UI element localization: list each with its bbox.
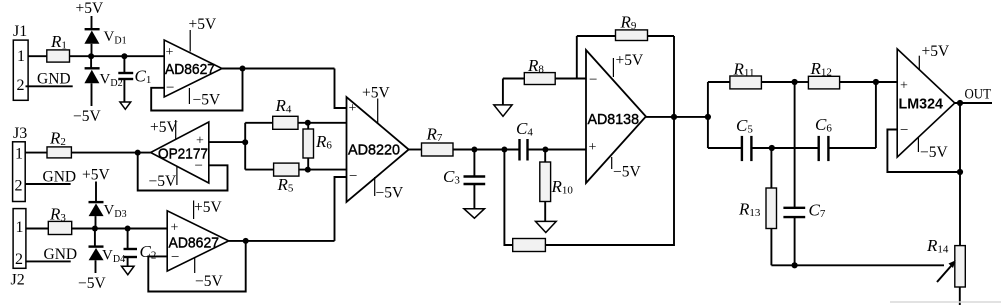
svg-text:−5V: −5V <box>920 144 948 161</box>
svg-text:C7: C7 <box>809 201 826 221</box>
svg-text:−: − <box>349 169 357 185</box>
wire U6 feedback loop <box>887 130 960 173</box>
node C3 junction <box>471 147 477 153</box>
resistor R3 <box>48 205 71 235</box>
svg-text:−5V: −5V <box>78 275 106 292</box>
in-amp U4 AD8220 <box>347 97 409 202</box>
op-amp U6 LM324 <box>897 49 955 157</box>
wire R3 to AD8627 bottom +in <box>72 228 168 230</box>
+5V supply VD3 <box>82 167 110 203</box>
svg-text:C1: C1 <box>135 67 152 87</box>
svg-text:+5V: +5V <box>82 167 110 184</box>
svg-text:AD8220: AD8220 <box>348 142 400 159</box>
svg-text:−5V: −5V <box>376 185 404 202</box>
wire MFB bottom loop <box>504 150 512 246</box>
svg-text:−5V: −5V <box>195 273 223 290</box>
svg-text:+5V: +5V <box>150 119 178 136</box>
svg-text:VD1: VD1 <box>104 29 127 47</box>
svg-text:R8: R8 <box>527 56 544 76</box>
resistor R12 <box>795 59 898 89</box>
svg-text:LM324: LM324 <box>899 96 944 113</box>
wire J2 pin1 to R3 <box>26 228 48 230</box>
svg-text:+5V: +5V <box>362 85 390 102</box>
svg-text:R2: R2 <box>49 129 66 149</box>
wire J3 pin1 to R2 <box>25 152 47 154</box>
node R13 junction <box>769 145 775 151</box>
wire U1 feedback loop <box>151 69 242 111</box>
wire J1 pin1 to R1 <box>28 55 47 57</box>
+5V supply U1 <box>189 16 217 52</box>
wire U5 output <box>646 116 708 118</box>
svg-text:R14: R14 <box>926 236 949 256</box>
svg-text:GND: GND <box>44 246 78 263</box>
svg-text:AD8627: AD8627 <box>165 61 215 78</box>
wire output vertical to R14 <box>959 103 961 246</box>
node R10 junction <box>542 147 548 153</box>
wire C6 to R12 vertical <box>828 147 876 149</box>
diode VD4 <box>89 229 126 274</box>
node R5 R6 junction <box>305 167 311 173</box>
wire U3 out to AD8220 -in <box>335 177 347 241</box>
svg-text:+5V: +5V <box>922 43 950 60</box>
node MFB feedback junction <box>501 147 507 153</box>
diode VD2 <box>84 56 122 106</box>
svg-text:AD8138: AD8138 <box>588 111 640 128</box>
node R4 R6 junction <box>305 120 311 126</box>
svg-text:GND: GND <box>37 71 71 88</box>
op-amp U2 OP2177 (left pointing) <box>151 122 209 183</box>
svg-text:+5V: +5V <box>194 199 222 216</box>
wire U2 feedback loop <box>138 153 228 191</box>
wire R1 to AD8627 +in <box>70 55 165 57</box>
svg-text:+: + <box>171 221 179 236</box>
svg-text:J1: J1 <box>13 23 27 40</box>
+5V supply U6 <box>919 43 950 70</box>
wire C4 to AD8138 +in <box>528 149 587 151</box>
svg-text:−5V: −5V <box>613 164 641 181</box>
svg-text:J3: J3 <box>13 125 27 142</box>
svg-text:R6: R6 <box>315 132 332 152</box>
resistor R2 <box>47 129 71 158</box>
svg-text:2: 2 <box>17 77 25 94</box>
resistor MFB feedback <box>513 239 546 252</box>
capacitor C2 <box>124 229 157 267</box>
svg-text:2: 2 <box>15 178 23 195</box>
GND label J3 <box>25 169 76 186</box>
wire U6 output <box>955 102 992 104</box>
svg-text:AD8627: AD8627 <box>169 235 220 252</box>
svg-text:C4: C4 <box>516 119 533 139</box>
ground under R10 <box>536 221 557 232</box>
wire R9 right vertical to output <box>673 36 675 117</box>
svg-text:R3: R3 <box>49 205 66 225</box>
potentiometer R14 <box>926 236 965 305</box>
node feedback R14 junction <box>957 169 963 175</box>
resistor R1 <box>47 32 70 62</box>
connector J1 <box>13 23 28 100</box>
node R11 R12 midpoint <box>792 79 798 85</box>
+5V supply VD1 <box>76 0 104 29</box>
resistor R9 <box>577 13 674 41</box>
node twin-T input junction <box>705 114 711 120</box>
node R4 R5 midpoint <box>242 139 248 145</box>
wire U3 feedback loop <box>148 241 245 292</box>
svg-text:VD3: VD3 <box>104 203 127 221</box>
wire bottom rail to R14 wiper <box>771 264 944 266</box>
resistor R7 <box>422 125 454 157</box>
ground under C2 <box>122 266 135 275</box>
capacitor C4 <box>516 119 533 161</box>
diode VD3 <box>89 202 127 228</box>
+5V supply U2 <box>150 119 178 140</box>
wire C5 to C6 <box>751 147 818 149</box>
svg-text:OP2177: OP2177 <box>158 146 208 163</box>
node C2 junction <box>125 226 131 232</box>
svg-text:+: + <box>349 101 357 116</box>
svg-text:R4: R4 <box>275 96 292 116</box>
node U5 output feedback junction <box>671 114 677 120</box>
svg-text:−: − <box>589 72 597 88</box>
wire U4 output to R7 <box>409 149 422 151</box>
svg-text:+5V: +5V <box>76 0 104 17</box>
-5V supply U6 <box>918 137 948 161</box>
svg-text:OUT: OUT <box>965 87 992 103</box>
svg-text:+: + <box>589 140 597 155</box>
-5V supply U4 <box>375 177 404 202</box>
+5V supply U4 <box>362 85 390 124</box>
svg-text:−5V: −5V <box>73 108 101 125</box>
svg-text:−: − <box>900 123 908 139</box>
node U1 output <box>240 66 246 72</box>
wire U3 output <box>229 240 335 242</box>
svg-text:+: + <box>900 79 908 94</box>
svg-text:1: 1 <box>15 146 23 163</box>
node U6 output <box>957 100 963 106</box>
+5V supply U5 <box>613 52 644 77</box>
op-amp U3 AD8627 bottom <box>167 211 229 271</box>
resistor R11 <box>708 60 795 89</box>
resistor R8 <box>503 56 586 85</box>
node C1 junction <box>121 53 127 59</box>
capacitor C7 <box>783 201 825 266</box>
diode VD1 <box>84 29 126 56</box>
svg-text:C6: C6 <box>815 115 832 135</box>
connector J3 <box>13 125 28 202</box>
svg-text:+5V: +5V <box>189 16 217 33</box>
resistor R13 <box>738 148 777 265</box>
-5V supply U5 <box>612 157 642 181</box>
resistor R4 <box>245 96 346 129</box>
wire R9 left vertical <box>576 36 578 79</box>
wire R2 to OP2177 output node <box>71 152 150 154</box>
capacitor C6 <box>815 115 832 161</box>
op-amp U5 AD8138 <box>586 50 646 183</box>
svg-text:GND: GND <box>43 169 77 186</box>
+5V supply U3 <box>194 199 223 219</box>
wire U1 output <box>222 68 335 70</box>
wire U1 out to AD8220 +in <box>335 69 347 109</box>
svg-text:R13: R13 <box>738 200 761 220</box>
svg-text:R9: R9 <box>620 13 637 33</box>
svg-text:C5: C5 <box>736 116 753 136</box>
node OP2177 output <box>135 150 141 156</box>
svg-text:−: − <box>166 80 174 96</box>
connector J2 <box>11 209 26 289</box>
ground under C3 <box>464 209 485 219</box>
svg-text:−5V: −5V <box>193 92 221 109</box>
faint border artifact bottom right <box>890 301 1001 303</box>
svg-text:R1: R1 <box>50 32 67 52</box>
wire R4 R5 mid vertical <box>244 123 246 170</box>
GND label J2 <box>26 246 77 263</box>
resistor R5 <box>245 163 346 194</box>
capacitor C3 <box>443 150 485 209</box>
svg-text:R10: R10 <box>551 177 574 197</box>
node U3 output <box>243 238 249 244</box>
svg-text:2: 2 <box>15 251 23 268</box>
svg-text:1: 1 <box>17 48 25 65</box>
svg-text:−5V: −5V <box>149 173 177 190</box>
svg-text:R5: R5 <box>277 175 294 195</box>
node J1 line VD junction <box>88 53 94 59</box>
node J2 line VD junction <box>92 226 98 232</box>
op-amp U1 AD8627 top <box>164 40 222 97</box>
node R12 C6 junction <box>873 79 879 85</box>
wire C7 vertical from R11 R12 midpoint <box>794 82 796 208</box>
svg-text:1: 1 <box>16 219 24 236</box>
ground under R8 <box>494 79 512 117</box>
node C7 bottom junction <box>792 262 798 268</box>
resistor R10 <box>540 150 574 222</box>
svg-text:VD4: VD4 <box>102 248 125 266</box>
svg-text:R12: R12 <box>810 59 832 79</box>
capacitor C1 <box>118 56 151 102</box>
-5V supply U1 <box>189 88 221 109</box>
resistor R6 <box>303 123 332 170</box>
wire MFB loop to output <box>545 117 674 245</box>
wire main line R7 to C4 <box>453 149 520 151</box>
svg-text:+: + <box>166 45 174 60</box>
wire U2 +in to R4 R5 midpoint <box>209 141 245 143</box>
wire R12 right vertical <box>875 82 877 148</box>
svg-text:R7: R7 <box>426 125 443 145</box>
-5V supply U3 <box>195 258 224 291</box>
capacitor C5 <box>708 116 753 161</box>
svg-text:C3: C3 <box>443 167 460 187</box>
svg-text:−: − <box>171 250 179 266</box>
wire twin-T input vertical <box>707 82 709 148</box>
ground under C1 <box>120 102 131 109</box>
-5V supply U2 <box>149 166 177 190</box>
svg-text:J2: J2 <box>11 272 25 289</box>
svg-text:R11: R11 <box>733 60 755 80</box>
R14 wiper arrow <box>937 260 956 282</box>
GND label J1 <box>26 71 73 88</box>
svg-text:+5V: +5V <box>616 52 644 69</box>
